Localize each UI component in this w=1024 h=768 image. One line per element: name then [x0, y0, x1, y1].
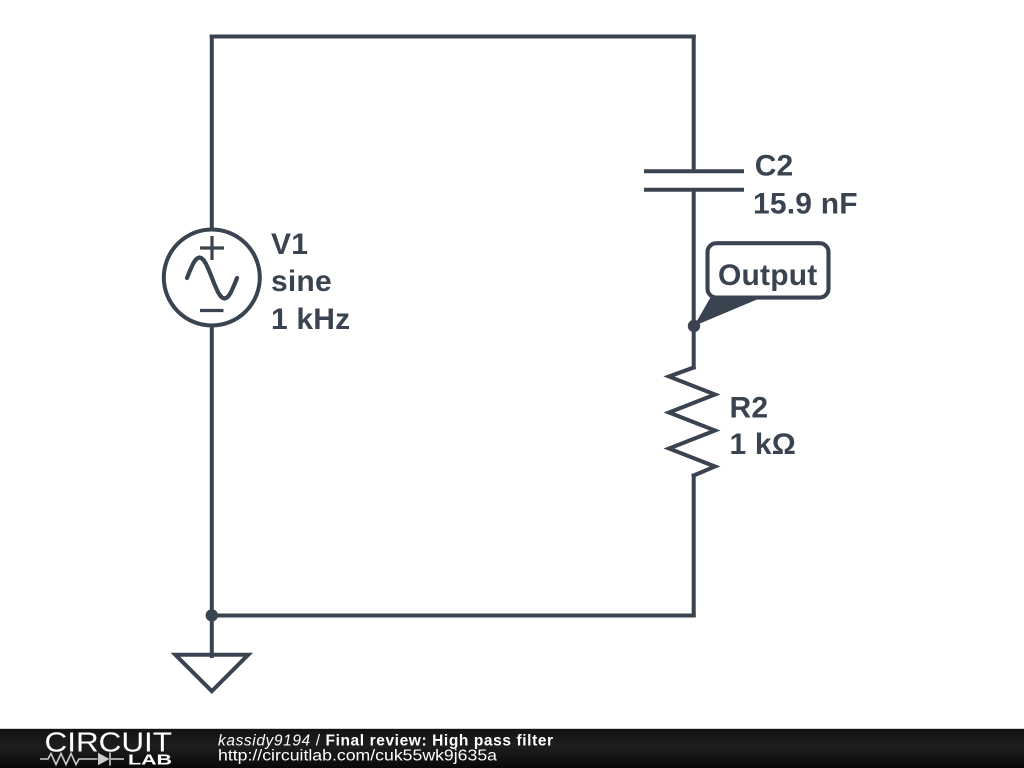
- svg-text:V1: V1: [271, 228, 308, 261]
- svg-text:1 kHz: 1 kHz: [271, 303, 350, 336]
- svg-text:15.9 nF: 15.9 nF: [753, 188, 858, 221]
- svg-text:Output: Output: [718, 259, 818, 292]
- svg-text:R2: R2: [730, 392, 769, 425]
- svg-text:LAB: LAB: [128, 751, 172, 768]
- svg-text:http://circuitlab.com/cuk55wk9: http://circuitlab.com/cuk55wk9j635a: [218, 748, 497, 765]
- svg-text:C2: C2: [755, 150, 794, 183]
- svg-text:1 kΩ: 1 kΩ: [730, 428, 797, 461]
- svg-text:sine: sine: [271, 265, 332, 298]
